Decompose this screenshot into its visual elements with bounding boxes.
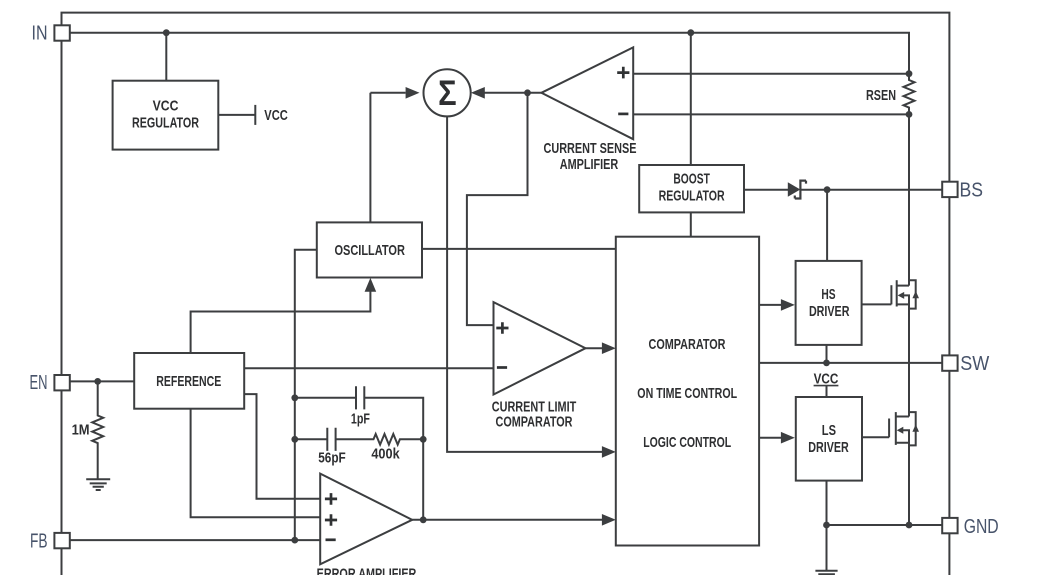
transistor LS MOSFET body diode loop bbox=[909, 412, 916, 445]
capacitor 56pF bbox=[327, 428, 335, 451]
wire current sense + to RSEN top bbox=[633, 73, 909, 75]
pin FB bbox=[54, 533, 69, 548]
transistor HS MOSFET drain stub bbox=[897, 285, 909, 287]
diode D1 (boost schottky) bbox=[788, 182, 801, 196]
transistor HS MOSFET source stub bbox=[897, 304, 909, 416]
pin IN bbox=[54, 25, 69, 40]
svg-text:COMPARATOR: COMPARATOR bbox=[496, 414, 573, 430]
arrowhead sigma into control box bbox=[602, 446, 616, 458]
svg-text:ERROR AMPLIFIER: ERROR AMPLIFIER bbox=[317, 567, 417, 575]
transistor LS MOSFET channel bar bbox=[895, 412, 897, 445]
wire VCC regulator input drop bbox=[165, 33, 167, 81]
wire reference to oscillator bottom bbox=[191, 290, 371, 353]
block HS driver box bbox=[796, 261, 862, 345]
wire comp network bottom branch bbox=[295, 438, 372, 440]
svg-text:DRIVER: DRIVER bbox=[808, 440, 849, 456]
arrowhead into oscillator bottom bbox=[365, 278, 377, 292]
wire boost regulator to control box bbox=[690, 212, 692, 236]
svg-text:COMPARATOR: COMPARATOR bbox=[649, 337, 726, 353]
arrowhead into sigma from right bbox=[471, 87, 485, 99]
svg-text:BOOST: BOOST bbox=[673, 171, 710, 187]
arrowhead into HS driver bbox=[781, 299, 795, 311]
wire control box to HS driver bbox=[759, 304, 781, 306]
node HS-driver/SW junction bbox=[823, 360, 830, 367]
label current sense amp - bbox=[618, 113, 628, 116]
transistor HS MOSFET gate lead bbox=[862, 303, 892, 305]
wire HS driver to SW node bbox=[826, 345, 828, 363]
resistor 400k bbox=[372, 434, 424, 445]
node BS/HS-driver junction bbox=[824, 186, 831, 193]
node FB/comp junction top bbox=[291, 394, 298, 401]
ground symbol under LS driver bbox=[815, 571, 837, 575]
node LS driver GND junction bbox=[823, 522, 830, 529]
arrowhead error amp into control box bbox=[602, 514, 616, 526]
label current limit - bbox=[497, 366, 507, 369]
wire control box to LS driver bbox=[759, 437, 781, 439]
svg-text:OSCILLATOR: OSCILLATOR bbox=[334, 243, 405, 259]
terminal VCC tick bbox=[254, 105, 256, 125]
pin GND bbox=[942, 518, 957, 533]
svg-text:LS: LS bbox=[822, 423, 836, 439]
transistor LS MOSFET gate bar bbox=[888, 419, 890, 438]
ground under 1M bbox=[86, 479, 110, 490]
wire current sense - to RSEN bottom bbox=[633, 113, 909, 115]
summer sigma circle bbox=[424, 69, 471, 116]
block boost regulator box bbox=[639, 165, 744, 212]
svg-text:HS: HS bbox=[821, 287, 835, 303]
node IN/VCC-reg junction bbox=[163, 29, 170, 36]
transistor LS MOSFET drain stub bbox=[896, 416, 909, 418]
svg-text:EN: EN bbox=[30, 372, 48, 394]
svg-text:1pF: 1pF bbox=[351, 411, 370, 427]
node RSEN top junction bbox=[906, 70, 913, 77]
wire error amp output to control box bbox=[412, 519, 603, 521]
svg-text:1M: 1M bbox=[72, 422, 90, 438]
node IN/boost junction bbox=[687, 29, 694, 36]
resistor 1M bbox=[92, 381, 103, 479]
transistor LS MOSFET source stub bbox=[896, 443, 909, 525]
label current sense amp + bbox=[617, 67, 629, 79]
wire reference to error amp first + input bbox=[244, 394, 320, 499]
block LS driver box bbox=[796, 397, 862, 481]
svg-text:56pF: 56pF bbox=[318, 451, 346, 467]
svg-text:REGULATOR: REGULATOR bbox=[659, 188, 725, 204]
transistor HS MOSFET gate bar bbox=[890, 285, 892, 304]
label current limit + bbox=[496, 322, 508, 334]
wire LS driver to GND bbox=[826, 481, 828, 571]
wire boost regulator output to diode bbox=[744, 189, 788, 191]
wire oscillator right output to control box bbox=[422, 248, 616, 250]
transistor HS MOSFET body diode loop bbox=[909, 280, 916, 308]
label error amp + first bbox=[325, 493, 337, 505]
svg-text:IN: IN bbox=[32, 23, 48, 45]
svg-text:RSEN: RSEN bbox=[866, 88, 896, 104]
pin BS bbox=[942, 182, 957, 197]
label error amp + second bbox=[325, 514, 337, 526]
wire oscillator to sigma bbox=[370, 92, 405, 94]
block control box (comparator / on time control / logic control) bbox=[616, 237, 759, 546]
wire boost regulator input drop bbox=[690, 33, 692, 165]
wire sigma feed from oscillator top bbox=[369, 93, 371, 223]
block oscillator box bbox=[317, 222, 422, 277]
svg-text:GND: GND bbox=[964, 516, 999, 538]
svg-text:400k: 400k bbox=[371, 447, 400, 463]
svg-text:CURRENT SENSE: CURRENT SENSE bbox=[544, 141, 637, 157]
wire BS node down to HS driver bbox=[826, 190, 828, 261]
wire reference to current limit - input bbox=[244, 367, 493, 369]
wire VCC underline bbox=[814, 385, 839, 387]
wire diode to BS pin bbox=[800, 189, 942, 191]
node error amp output junction bbox=[420, 516, 427, 523]
transistor HS MOSFET body arrowhead bbox=[898, 292, 905, 299]
diode D1 cathode bar (schottky hooks) bbox=[795, 181, 806, 199]
transistor HS MOSFET channel bar bbox=[896, 280, 898, 306]
wire VCC output bbox=[218, 114, 255, 116]
op-amp current sense amplifier triangle bbox=[541, 47, 633, 139]
capacitor 1pF bbox=[356, 386, 364, 409]
arrowhead into sigma from left bbox=[406, 87, 420, 99]
wire GND net bbox=[827, 524, 943, 526]
transistor LS MOSFET loop up-arrowhead bbox=[912, 424, 919, 431]
wire current sense amp to sigma bbox=[484, 92, 541, 94]
svg-text:LOGIC CONTROL: LOGIC CONTROL bbox=[643, 435, 731, 451]
wire comp network top branch bbox=[295, 398, 423, 520]
wire sigma output down to comparator bbox=[447, 116, 603, 452]
block U-VCCREG VCC Regulator box bbox=[113, 81, 219, 150]
wire current sense to current limit + bbox=[467, 93, 528, 325]
svg-text:Σ: Σ bbox=[438, 74, 457, 113]
wire SW net bbox=[759, 362, 942, 364]
node FB/comp junction bottom bbox=[291, 436, 298, 443]
resistor RSEN bbox=[904, 74, 915, 115]
node RSEN bottom junction bbox=[906, 111, 913, 118]
svg-text:VCC: VCC bbox=[153, 98, 179, 114]
wire RSEN bottom to HS drain bbox=[908, 114, 910, 285]
svg-text:VCC: VCC bbox=[264, 108, 288, 124]
transistor LS MOSFET body stub bbox=[903, 430, 909, 443]
transistor HS MOSFET loop up-arrowhead bbox=[912, 291, 919, 298]
wire IN net horizontal bbox=[69, 33, 909, 74]
pin SW bbox=[942, 355, 957, 370]
transistor LS MOSFET gate lead bbox=[862, 436, 889, 438]
svg-text:SW: SW bbox=[960, 353, 989, 375]
block reference box bbox=[134, 353, 244, 409]
wire reference bottom to error amp second + input bbox=[191, 409, 321, 518]
transistor LS MOSFET body arrowhead bbox=[897, 427, 904, 434]
transistor HS MOSFET body stub bbox=[903, 295, 909, 304]
svg-text:REGULATOR: REGULATOR bbox=[132, 116, 199, 132]
node comp right junction bbox=[420, 436, 427, 443]
svg-text:CURRENT LIMIT: CURRENT LIMIT bbox=[492, 400, 577, 416]
svg-text:ON TIME CONTROL: ON TIME CONTROL bbox=[637, 386, 737, 402]
node LS FET GND junction bbox=[906, 522, 913, 529]
svg-text:REFERENCE: REFERENCE bbox=[156, 374, 221, 390]
svg-text:AMPLIFIER: AMPLIFIER bbox=[560, 157, 619, 173]
label error amp - bbox=[326, 538, 336, 541]
svg-text:DRIVER: DRIVER bbox=[809, 304, 850, 320]
node FB wire junction bbox=[291, 537, 298, 544]
svg-text:FB: FB bbox=[30, 531, 48, 553]
wire FB to error amp - input bbox=[70, 539, 320, 541]
node sigma/current-limit junction bbox=[524, 89, 531, 96]
arrowhead into LS driver bbox=[781, 432, 795, 444]
node EN junction bbox=[94, 378, 101, 385]
op-amp error amplifier triangle bbox=[320, 474, 412, 565]
wire VCC stub to LS driver bbox=[826, 386, 828, 397]
arrowhead current limit into control box bbox=[602, 342, 616, 354]
comparator current limit triangle bbox=[494, 302, 586, 394]
wire oscillator left input from FB net bbox=[295, 250, 317, 540]
wire current limit output to control box bbox=[586, 347, 604, 349]
svg-text:BS: BS bbox=[960, 180, 984, 202]
pin EN bbox=[54, 375, 69, 390]
wire EN to reference bbox=[70, 380, 135, 382]
